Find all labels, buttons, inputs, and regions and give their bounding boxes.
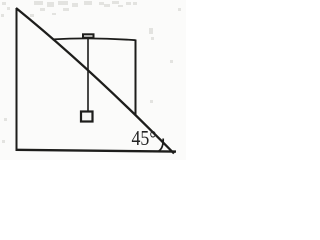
string	[87, 39, 89, 112]
ceiling attachment bracket	[83, 34, 94, 37]
hypotenuse (45° incline)	[16, 8, 174, 154]
ceiling line	[53, 38, 136, 40]
right wall of inner rectangle	[135, 40, 137, 116]
triangle base (ground line)	[16, 150, 177, 152]
svg-text:45°: 45°	[132, 128, 157, 151]
45° angle arc	[159, 139, 163, 152]
hanging block	[81, 112, 93, 122]
triangle left side (vertical wall)	[16, 8, 18, 151]
